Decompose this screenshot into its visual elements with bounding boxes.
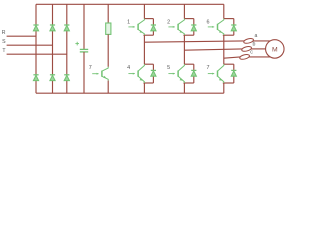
transistor Q7 (brake chopper) bbox=[102, 67, 108, 81]
transistor Q6 (upper leg 3) bbox=[218, 19, 224, 36]
svg-text:b: b bbox=[253, 42, 256, 48]
diode D11 (freewheel of Q5) bbox=[191, 70, 196, 76]
wire S input line bbox=[7, 44, 53, 46]
wire capacitor branch bottom bbox=[83, 52, 85, 93]
wire leg 2 top freewheel branch bbox=[193, 19, 195, 36]
wire phase b to motor bbox=[251, 48, 266, 50]
base pin of transistor Q6 (upper leg 3) bbox=[208, 26, 214, 28]
transistor Q4 (lower leg 1) bbox=[138, 64, 144, 83]
wire leg 2 drop from DC+ bbox=[183, 4, 185, 18]
base pin of transistor Q5 (lower leg 2) bbox=[168, 73, 174, 75]
wire leg 3 top cell lower link bbox=[223, 34, 234, 36]
diode D8 (freewheel of Q2) bbox=[191, 25, 196, 31]
wire leg 3 drop from DC+ bbox=[223, 4, 225, 18]
wire leg 2 midpoint bbox=[183, 35, 185, 64]
wire phase b from leg 2 midpoint bbox=[184, 49, 242, 50]
wire leg 3 bottom freewheel branch bbox=[233, 64, 235, 83]
svg-text:S: S bbox=[2, 39, 6, 45]
svg-text:M: M bbox=[272, 47, 278, 54]
svg-text:6: 6 bbox=[207, 20, 210, 26]
diode D1 (rectifier top leg 1) bbox=[33, 25, 38, 31]
resistor R1 (brake resistor) bbox=[106, 23, 111, 34]
diode D5 (rectifier bottom leg 2) bbox=[50, 75, 55, 81]
wire rectifier leg 2 bbox=[52, 4, 54, 93]
svg-text:4: 4 bbox=[127, 65, 130, 71]
svg-text:c: c bbox=[250, 50, 253, 56]
wire brake branch top bbox=[107, 4, 109, 23]
base pin of transistor Q7 (brake chopper) bbox=[92, 73, 98, 75]
diode D2 (rectifier top leg 2) bbox=[50, 25, 55, 31]
diode D4 (rectifier bottom leg 1) bbox=[33, 75, 38, 81]
wire leg 2 drop to DC- bbox=[183, 83, 185, 93]
wire T input line bbox=[7, 53, 67, 55]
terminal b (output bushing) bbox=[241, 46, 252, 52]
wire leg 3 bottom cell lower link bbox=[223, 82, 234, 84]
wire rectifier leg 3 bbox=[66, 4, 68, 93]
wire rectifier leg 1 bbox=[35, 4, 37, 93]
base pin of transistor Q1 (upper leg 1) bbox=[128, 26, 134, 28]
wire DC- bottom rail bbox=[36, 92, 224, 94]
wire capacitor branch top bbox=[83, 4, 85, 49]
wire leg 1 drop to DC- bbox=[143, 83, 145, 93]
svg-text:a: a bbox=[255, 33, 258, 39]
wire leg 3 drop to DC- bbox=[223, 83, 225, 93]
wire R input line bbox=[7, 35, 36, 37]
wire leg 3 top freewheel branch bbox=[233, 19, 235, 36]
transistor Q5 (lower leg 2) bbox=[178, 64, 184, 83]
terminal c (output bushing) bbox=[239, 54, 250, 60]
diode D6 (rectifier bottom leg 3) bbox=[64, 75, 69, 81]
wire leg 3 midpoint bbox=[223, 35, 225, 64]
diode D12 (freewheel of Q7b) bbox=[231, 70, 236, 76]
transistor Q7b (lower leg 3) bbox=[218, 64, 224, 83]
wire leg 3 top cell upper link bbox=[224, 18, 234, 20]
wire phase c from leg 3 midpoint bbox=[224, 57, 240, 58]
base pin of transistor Q2 (upper leg 2) bbox=[168, 26, 174, 28]
transistor Q2 (upper leg 2) bbox=[178, 19, 184, 36]
wire leg 1 top freewheel branch bbox=[152, 19, 154, 36]
wire leg 2 bottom cell lower link bbox=[183, 82, 193, 84]
wire leg 2 top cell lower link bbox=[183, 34, 193, 36]
base pin of transistor Q7b (lower leg 3) bbox=[208, 73, 214, 75]
wire leg 1 bottom freewheel branch bbox=[152, 64, 154, 83]
wire brake branch middle bbox=[107, 34, 109, 66]
svg-text:7: 7 bbox=[207, 65, 210, 71]
wire leg 1 top cell lower link bbox=[143, 34, 153, 36]
diode D3 (rectifier top leg 3) bbox=[64, 25, 69, 31]
wire phase a to motor bbox=[253, 40, 270, 42]
wire phase a from leg 1 midpoint bbox=[144, 41, 244, 42]
transistor Q1 (upper leg 1) bbox=[138, 19, 144, 36]
wire leg 1 midpoint bbox=[143, 35, 145, 64]
diode D7 (freewheel of Q1) bbox=[151, 25, 156, 31]
capacitor C1 (DC bus electrolytic) bbox=[80, 49, 88, 52]
diode D10 (freewheel of Q4) bbox=[151, 70, 156, 76]
wire brake branch bottom bbox=[107, 81, 109, 94]
svg-text:T: T bbox=[2, 48, 6, 54]
diode D9 (freewheel of Q6) bbox=[231, 25, 236, 31]
wire leg 2 top cell upper link bbox=[184, 18, 193, 20]
wire phase c to motor bbox=[249, 56, 270, 58]
capacitor C1 polarity mark + bbox=[75, 42, 79, 46]
wire leg 2 bottom cell upper link bbox=[184, 63, 193, 65]
svg-text:1: 1 bbox=[127, 20, 130, 26]
wire DC+ top rail bbox=[36, 3, 224, 5]
svg-text:7: 7 bbox=[89, 65, 92, 71]
wire leg 1 bottom cell lower link bbox=[143, 82, 153, 84]
svg-text:R: R bbox=[2, 30, 6, 36]
base pin of transistor Q4 (lower leg 1) bbox=[128, 73, 134, 75]
wire leg 3 bottom cell upper link bbox=[224, 63, 234, 65]
motor M (circle) bbox=[266, 40, 285, 59]
wire leg 1 drop from DC+ bbox=[143, 4, 145, 18]
svg-text:2: 2 bbox=[167, 20, 170, 26]
svg-text:5: 5 bbox=[167, 65, 170, 71]
wire leg 2 bottom freewheel branch bbox=[193, 64, 195, 83]
wire leg 1 bottom cell upper link bbox=[144, 63, 153, 65]
wire leg 1 top cell upper link bbox=[144, 18, 153, 20]
terminal a (output bushing) bbox=[243, 38, 254, 44]
